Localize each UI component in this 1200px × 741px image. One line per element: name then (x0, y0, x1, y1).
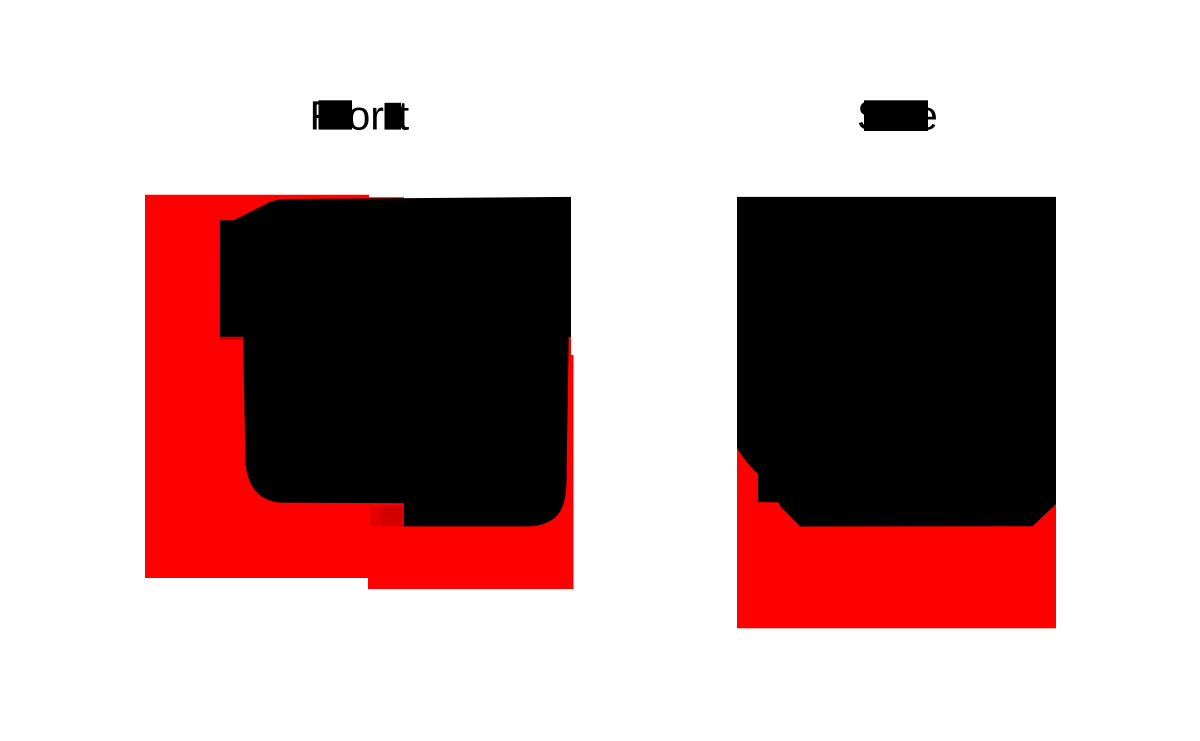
black silhouette blob, side view (737, 197, 1056, 527)
svg-text:o: o (348, 93, 371, 139)
svg-text:t: t (398, 93, 410, 139)
dark-red square (darker half), front view (380, 505, 403, 526)
svg-text:r: r (370, 93, 384, 139)
label "Front" (glyphs partly replaced by tofu boxes) (310, 93, 410, 139)
dark-red square (lighter half), front view (370, 505, 380, 526)
dark-red ledge strip on left edge, front view (220, 337, 242, 340)
red highlight region, side view (737, 448, 1056, 629)
svg-text:e: e (915, 93, 938, 139)
black silhouette blob, front view (220, 197, 571, 527)
label "Side" (glyphs partly replaced by tofu boxes) (857, 93, 938, 139)
red highlight region, front view (145, 195, 574, 589)
